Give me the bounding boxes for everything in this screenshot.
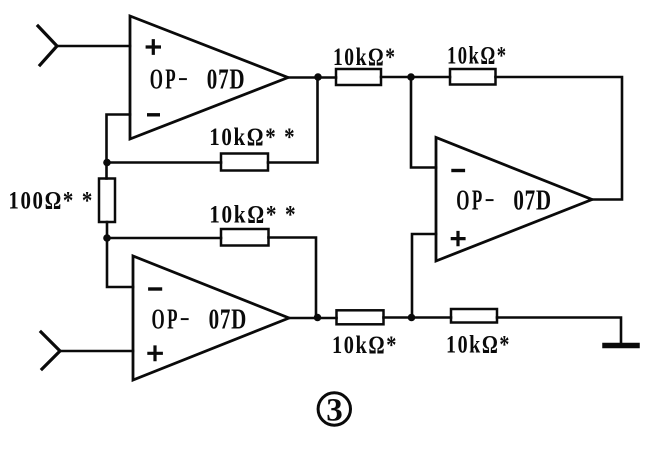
- wire IN1 to U1 + input: [57, 45, 130, 48]
- op-amp U3 + symbol: [452, 233, 464, 245]
- node B junction dot: [407, 73, 415, 81]
- node A junction dot: [103, 159, 111, 167]
- wire node A to resistor R3: [107, 161, 221, 164]
- resistor R2 body: [450, 69, 496, 85]
- op-amp U3 triangle: [436, 138, 592, 262]
- op-amp U1 triangle: [130, 16, 288, 139]
- op-amp U2 - symbol: [150, 287, 161, 290]
- wire IN2 to U2 + input: [60, 350, 133, 353]
- resistor R5 body: [337, 310, 384, 324]
- figure number circle 3: [318, 393, 350, 425]
- wire node D to resistor R4: [107, 237, 221, 240]
- node O1 junction dot: [314, 73, 322, 81]
- wire U2 output: [289, 317, 337, 320]
- svg-text:07D: 07D: [207, 65, 246, 96]
- op-amp U1 - symbol: [149, 113, 159, 116]
- svg-text:10kΩ*: 10kΩ*: [446, 330, 511, 359]
- wire U3 non-inverting input to node E: [412, 234, 436, 318]
- wire node B to U3 inverting input: [411, 77, 436, 168]
- wire R1 to node B: [381, 76, 450, 79]
- svg-text:10kΩ*: 10kΩ*: [333, 42, 397, 71]
- svg-text:07D: 07D: [209, 305, 248, 336]
- svg-text:10kΩ* *: 10kΩ* *: [209, 199, 297, 228]
- svg-text:OP−: OP−: [456, 186, 497, 217]
- svg-text:3: 3: [326, 393, 343, 429]
- node D junction dot: [103, 234, 111, 242]
- svg-text:10kΩ*: 10kΩ*: [332, 330, 398, 359]
- svg-text:10kΩ*: 10kΩ*: [447, 41, 508, 70]
- input terminal IN1 (arrow): [38, 26, 57, 65]
- wire U1 inverting input to node A: [107, 115, 131, 179]
- resistor R6 body: [451, 309, 497, 323]
- node O2 junction dot: [314, 314, 322, 322]
- wire R5 to node E: [384, 316, 452, 319]
- resistor R1 body: [336, 69, 381, 85]
- svg-text:07D: 07D: [513, 186, 552, 217]
- wire U1 output: [288, 76, 336, 79]
- svg-text:OP−: OP−: [152, 305, 193, 336]
- input terminal IN2 (arrow): [41, 332, 60, 369]
- op-amp U3 - symbol: [453, 169, 463, 172]
- wire R6 to ground: [497, 318, 621, 345]
- ground symbol: [605, 343, 637, 349]
- wire R7 bottom to node D to U2 inverting input: [107, 222, 133, 287]
- resistor R4 body: [221, 229, 269, 246]
- resistor R3 body: [221, 154, 268, 171]
- wire R4 to node O2 (U2 output): [269, 238, 317, 318]
- wire R2 to U3 output (feedback loop): [496, 77, 623, 200]
- op-amp U1 + symbol: [147, 41, 159, 54]
- svg-text:OP−: OP−: [150, 65, 191, 96]
- svg-text:100Ω* *: 100Ω* *: [8, 186, 94, 215]
- node E junction dot: [408, 314, 416, 322]
- op-amp U2 triangle: [133, 256, 289, 380]
- resistor R7 100 Ohm body (vertical): [99, 179, 115, 223]
- wire R3 to node O1 (U1 output): [268, 77, 318, 163]
- op-amp U2 + symbol: [149, 347, 161, 360]
- svg-text:10kΩ* *: 10kΩ* *: [209, 122, 296, 151]
